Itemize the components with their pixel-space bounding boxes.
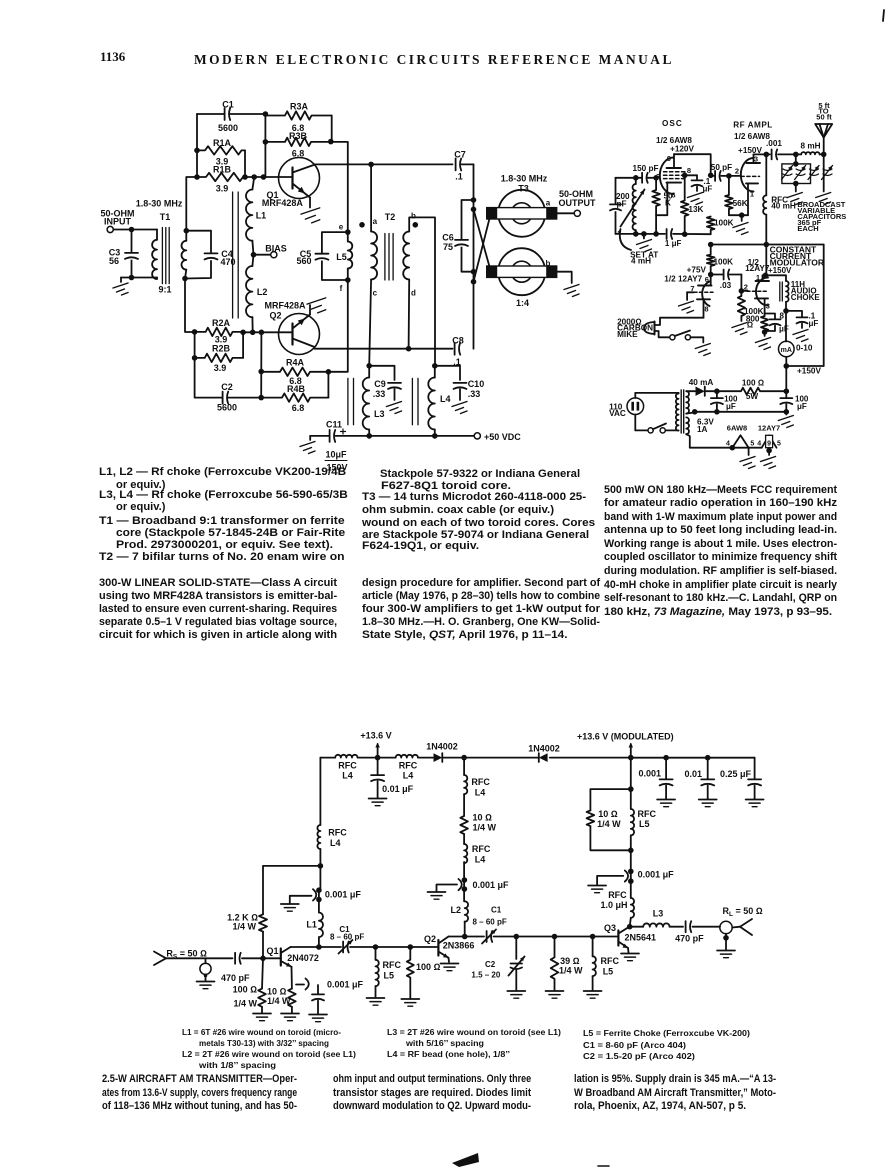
svg-text:L2: L2 [450, 905, 461, 915]
wire R2B right lead [242, 332, 244, 358]
scan mark top right [883, 10, 884, 21]
node phase dots T2 [359, 222, 418, 228]
node fb tap [318, 863, 324, 869]
heater 6AW8 [726, 423, 754, 447]
wire R3A right lead [331, 116, 333, 142]
wire sec rail down [185, 279, 195, 333]
inductor 8mH [796, 142, 824, 155]
inductor L1 [246, 177, 266, 255]
svg-text:c: c [373, 289, 378, 298]
svg-text:150V: 150V [326, 463, 347, 473]
svg-text:μF: μF [779, 324, 789, 333]
label 1/2 6AW8 osc [656, 136, 692, 145]
node R2A terminals [192, 329, 264, 335]
label 6.3V 1A [697, 418, 714, 434]
node b+ psu [784, 388, 790, 394]
wire psu bottom row [695, 411, 787, 413]
svg-text:C9: C9 [374, 379, 386, 389]
capacitor C6 [442, 200, 473, 272]
switch power [648, 424, 679, 434]
label c [373, 289, 378, 298]
wire mod grid lead [741, 290, 748, 292]
wire varcap gnd [795, 184, 797, 192]
diode rectifier [696, 387, 705, 396]
resistor 10 ohm rail [460, 794, 496, 834]
wire Q2 emitter [448, 958, 451, 962]
node choke bottom [783, 308, 789, 314]
ground Q2 emitter [307, 298, 326, 313]
wire bus c [444, 757, 539, 759]
wire supply arrow 1 [375, 743, 379, 758]
svg-text:8: 8 [687, 166, 691, 175]
svg-text:1.0 μH: 1.0 μH [601, 900, 628, 910]
svg-text:T2: T2 [385, 212, 396, 222]
svg-text:pF: pF [616, 200, 626, 209]
node e junction [345, 229, 351, 235]
svg-text:1/2 12AY7: 1/2 12AY7 [664, 275, 702, 284]
ground grid resistor [732, 316, 747, 335]
node mod grid [739, 288, 745, 294]
svg-text:a: a [546, 199, 551, 208]
wire top bus left [320, 757, 335, 759]
svg-text:+120V: +120V [670, 145, 694, 154]
transistor Q1 [267, 946, 319, 967]
node screen [682, 173, 688, 179]
ground 10 ohm [281, 1007, 299, 1021]
node rfc l5 tap [373, 944, 413, 950]
svg-text:560: 560 [296, 256, 311, 266]
label +13.6V [360, 731, 391, 741]
svg-text:L5: L5 [639, 819, 650, 829]
resistor R3B [265, 131, 330, 159]
transformer T2 core [385, 234, 393, 281]
transistor Q3 [604, 923, 656, 948]
resistor R2A [195, 318, 244, 345]
svg-text:10μF: 10μF [325, 450, 347, 460]
wire ant rail [823, 154, 825, 191]
svg-text:+13.6 V (MODULATED): +13.6 V (MODULATED) [577, 732, 674, 742]
ground heater 2 [761, 457, 776, 469]
inductor L3 [363, 366, 385, 436]
svg-text:1/4 W: 1/4 W [233, 999, 257, 1009]
svg-text:5W: 5W [746, 392, 759, 401]
svg-text:100 Ω: 100 Ω [742, 379, 764, 388]
svg-text:3: 3 [766, 302, 770, 311]
inductor L2 [450, 901, 468, 936]
node ant [821, 152, 827, 158]
inductor RFC L5 b [593, 937, 620, 991]
transformer T1 core [162, 228, 169, 284]
wire bus a [358, 757, 396, 759]
ground RFC L5 b [584, 991, 602, 998]
wire 50VDC bus [310, 435, 474, 437]
capacitor 0.25uF bypass [720, 769, 762, 799]
wire supply arrow 2 [629, 743, 633, 758]
transistor Q2 [265, 301, 320, 355]
wire C7 to rail [462, 163, 474, 165]
wire 10ohm branch [590, 789, 630, 810]
wire T2 a line [370, 164, 372, 231]
inductor RFC L4 c [317, 825, 347, 849]
svg-text:RFC: RFC [338, 761, 357, 771]
svg-text:C2: C2 [485, 960, 496, 969]
node supply 1 [375, 755, 381, 761]
svg-text:0.001 μF: 0.001 μF [327, 980, 364, 990]
svg-text:C1: C1 [222, 100, 234, 110]
wire rfc rail low [318, 890, 320, 912]
svg-text:L4: L4 [403, 770, 414, 780]
svg-text:75: 75 [443, 242, 453, 252]
wire T2 d line [408, 280, 411, 349]
svg-text:L5: L5 [384, 970, 395, 980]
label SET AT 4mH [630, 250, 658, 265]
tube V2 rf amplifier [741, 154, 760, 215]
label 1/2 12AY7 mod [745, 258, 770, 273]
wire L3 out [670, 926, 683, 928]
svg-text:150 pF: 150 pF [633, 164, 659, 173]
resistor 10 ohm [267, 987, 296, 1007]
transformer T1 primary [152, 230, 157, 280]
wire left column [319, 758, 321, 825]
node mod plate [763, 273, 769, 279]
node par top [628, 786, 634, 792]
wire varcap feed [766, 154, 796, 164]
svg-text:L5: L5 [603, 966, 614, 976]
svg-text:C7: C7 [454, 150, 466, 160]
capacitor var 1 [782, 166, 793, 180]
svg-text:1/2 6AW8: 1/2 6AW8 [656, 136, 692, 145]
svg-text:MRF428A: MRF428A [265, 301, 307, 311]
svg-text:100 Ω: 100 Ω [233, 985, 258, 995]
wire col rail [463, 758, 465, 775]
wire heater gnd 2 [766, 448, 772, 455]
svg-text:5: 5 [750, 440, 754, 447]
ground 100 ohm [253, 1007, 271, 1021]
capacitor C2 variable [471, 937, 524, 991]
wire feedback [263, 866, 320, 914]
resistor R1B [197, 165, 243, 194]
wire T1 primary bottom [132, 277, 158, 279]
svg-text:RFC: RFC [399, 761, 418, 771]
node 150v [764, 152, 799, 158]
node R3 junction [328, 139, 334, 145]
wire BIAS [254, 254, 271, 256]
tube V3 keyed stage [690, 275, 713, 318]
capacitor 470pF b [675, 920, 704, 943]
ground grid2 [679, 301, 694, 313]
node heater bus [730, 445, 736, 451]
tube V4 modulator [744, 273, 770, 316]
svg-text:L3: L3 [653, 909, 664, 919]
ground 100 ohm b [401, 999, 419, 1006]
svg-text:50 pF: 50 pF [711, 163, 732, 172]
label a [373, 217, 378, 226]
wire B+ row [711, 244, 824, 246]
wire 10ohm branch low [590, 826, 630, 850]
capacitor 8uF [765, 312, 789, 334]
resistor R4B [261, 384, 328, 413]
inductor RFC L5 c [631, 789, 657, 850]
svg-text:5: 5 [777, 440, 781, 447]
node R4A left [258, 369, 264, 375]
svg-text:1/4 W: 1/4 W [232, 921, 256, 931]
ground osc tank [637, 234, 652, 252]
antenna [815, 101, 832, 154]
wire mid row [350, 946, 438, 948]
wire feedback rail [331, 142, 348, 232]
capacitor var 4 [822, 166, 833, 180]
svg-text:C8: C8 [452, 336, 464, 346]
svg-text:10 Ω: 10 Ω [473, 813, 493, 823]
inductor L3 [643, 909, 669, 927]
svg-text:4: 4 [757, 440, 761, 447]
node mod rail top [628, 755, 634, 761]
svg-text:L1: L1 [256, 211, 267, 221]
svg-text:1N4002: 1N4002 [426, 742, 458, 752]
svg-text:C6: C6 [442, 233, 454, 243]
wire T3 lower gnd [557, 272, 572, 283]
node psu bottom [692, 409, 789, 415]
capacitor 0.01uF [370, 758, 414, 798]
resistor 100 ohm b [407, 947, 441, 998]
svg-text:0.001 μF: 0.001 μF [473, 880, 510, 890]
ground screen cap [688, 193, 703, 205]
svg-text:5600: 5600 [217, 403, 237, 413]
capacitor C5 [296, 232, 347, 280]
svg-text:C2: C2 [221, 382, 233, 392]
svg-text:L4: L4 [475, 788, 486, 798]
svg-text:b: b [411, 212, 416, 221]
svg-text:L5: L5 [336, 252, 347, 262]
svg-text:8 – 60 pF: 8 – 60 pF [330, 933, 364, 942]
capacitor .1uF mod [786, 311, 818, 328]
svg-text:VAC: VAC [609, 409, 626, 418]
label 40 mA [689, 378, 714, 387]
svg-text:2N5641: 2N5641 [625, 932, 657, 942]
capacitor C2 [217, 382, 261, 413]
svg-text:1/4 W: 1/4 W [267, 996, 291, 1006]
label +120V [670, 145, 694, 154]
svg-text:0.001 μF: 0.001 μF [325, 890, 362, 900]
label +150V rf [738, 146, 762, 155]
wire +120V row [674, 154, 711, 175]
node rect out [714, 388, 720, 394]
wire left col lower [319, 849, 321, 866]
resistor R4A [261, 358, 328, 386]
node par bottom [628, 848, 634, 854]
wire grid2 lead [687, 292, 694, 300]
node grid row [633, 175, 659, 181]
label T2 [385, 212, 396, 222]
node col rail top [461, 755, 467, 761]
switch key [670, 331, 691, 340]
wire .03 row [711, 275, 742, 291]
node cathode mod [762, 329, 768, 335]
label +13.6V MOD [577, 732, 674, 742]
svg-text:0.001 μF: 0.001 μF [638, 870, 675, 880]
source Rs [154, 949, 233, 981]
svg-text:R4A: R4A [286, 358, 305, 368]
label CONSTANT CURRENT MODULATOR [770, 245, 824, 268]
ground C11 [300, 442, 315, 454]
svg-text:50 ft: 50 ft [816, 113, 832, 122]
svg-text:1:4: 1:4 [516, 298, 529, 308]
heater 12AY7 [757, 423, 781, 447]
svg-text:Ω: Ω [747, 321, 753, 330]
wire Q2 base [243, 331, 292, 333]
tube V1 oscillator [656, 154, 691, 200]
ground input [113, 283, 128, 295]
capacitor 200pF [609, 178, 630, 234]
svg-text:BIAS: BIAS [265, 244, 287, 254]
capacitor 100uF 1 [710, 391, 738, 412]
svg-text:1/4 W: 1/4 W [559, 966, 583, 976]
ground RFC L5 a [367, 998, 385, 1005]
svg-text:RFC: RFC [383, 960, 402, 970]
node +75V [687, 266, 714, 278]
svg-text:470 pF: 470 pF [221, 973, 250, 983]
resistor R1A [197, 138, 245, 167]
svg-text:RFC: RFC [471, 777, 490, 787]
svg-text:T3: T3 [518, 184, 529, 194]
capacitor 0.001 a [290, 887, 362, 903]
svg-text:2: 2 [735, 166, 739, 175]
label 50-OHM INPUT [100, 209, 134, 227]
wire f-rail to R4 [328, 280, 347, 372]
wire grid row [616, 177, 659, 179]
svg-text:C10: C10 [468, 379, 485, 389]
node T2a tap [368, 162, 374, 168]
svg-text:L4: L4 [475, 854, 486, 864]
label 1.8-30MHz T3 [501, 174, 548, 184]
transformer T3 lower toroid [487, 248, 557, 295]
svg-text:CHOKE: CHOKE [791, 293, 821, 302]
capacitor C3 [109, 230, 139, 278]
scan mark dash [598, 1165, 609, 1167]
wire rect row [687, 390, 717, 392]
wire rf grid lead [729, 166, 741, 176]
wire Q1 base [243, 176, 293, 178]
svg-text:a: a [373, 217, 378, 226]
wire left rail [196, 114, 198, 177]
node R1A-R1B junctions [194, 148, 266, 180]
node out row [514, 934, 596, 940]
svg-text:R2A: R2A [212, 318, 231, 328]
wire plug bottom [635, 415, 648, 431]
svg-text:+13.6 V: +13.6 V [360, 731, 391, 741]
capacitor C10 [435, 366, 484, 400]
label 1:4 [516, 298, 529, 308]
label 1/2 6AW8 rf [734, 132, 770, 141]
terminal input [107, 226, 113, 232]
svg-text:Q2: Q2 [270, 311, 282, 321]
wire Q3 emitter [627, 948, 630, 953]
label BROADCAST [797, 200, 846, 233]
capacitor var 2 [795, 166, 806, 180]
scan mark bottom [452, 1153, 479, 1167]
wire heater bus [690, 447, 762, 449]
inductor L2 [246, 255, 267, 333]
svg-text:6AW8: 6AW8 [727, 423, 747, 432]
ground Q2 [441, 964, 459, 971]
wire R1A right lead [244, 150, 246, 177]
svg-text:56K: 56K [733, 199, 748, 208]
node L4 top [432, 363, 438, 369]
transformer T3 upper toroid [487, 190, 557, 237]
wire Q1 emitter [309, 198, 311, 208]
resistor 100 ohm base [233, 958, 266, 1008]
wire bus d [550, 757, 631, 759]
svg-text:.1: .1 [455, 172, 463, 182]
node 50pF tap [708, 173, 714, 179]
capacitor C4 [185, 231, 236, 279]
wire 1.2K lead [262, 932, 264, 959]
svg-text:OSC: OSC [662, 119, 683, 128]
label 1.8-30MHz [136, 198, 183, 208]
wire mod rail low [630, 850, 632, 898]
svg-text:RFC: RFC [638, 809, 657, 819]
label +150V out [797, 367, 821, 376]
ground load [717, 951, 735, 958]
inductor RFC 1uH [601, 890, 635, 927]
node Q2 collector [462, 934, 468, 940]
wire Q1 collector row [291, 946, 342, 948]
ground 0.001 a [281, 904, 299, 911]
inductor RFC 40mH [763, 158, 796, 245]
wire cathode osc [656, 192, 667, 215]
ground C10 [452, 402, 467, 414]
choke core L4 [412, 378, 418, 424]
svg-text:9:1: 9:1 [158, 285, 171, 295]
wire psu primary top [635, 393, 678, 398]
svg-text:.33: .33 [468, 389, 481, 399]
svg-text:L4: L4 [342, 770, 353, 780]
svg-text:3: 3 [754, 155, 758, 164]
wire T3 rail [473, 164, 475, 348]
microphone [617, 318, 654, 340]
svg-text:μF: μF [703, 185, 713, 194]
svg-text:0.01: 0.01 [684, 769, 702, 779]
diode 1N4002 a [426, 742, 458, 763]
resistor 800 ohm [746, 315, 768, 332]
wire mod rail [765, 245, 767, 276]
inductor L5 [336, 232, 352, 280]
svg-text:f: f [340, 284, 343, 293]
svg-text:12AY7: 12AY7 [758, 423, 780, 432]
terminal +50VDC [474, 432, 521, 442]
label +150V mod [768, 266, 792, 275]
svg-text:d: d [411, 289, 416, 298]
wire rfc rail mid [319, 866, 321, 890]
resistor 100 ohm 5W [717, 379, 786, 401]
inductor L1 [306, 913, 323, 948]
svg-text:e: e [339, 223, 344, 232]
svg-text:8: 8 [780, 312, 785, 321]
ground 0.001 b [428, 892, 446, 899]
svg-text:3.9: 3.9 [214, 363, 227, 373]
svg-text:1.5 – 20: 1.5 – 20 [471, 970, 500, 979]
svg-text:+150V: +150V [768, 266, 792, 275]
transformer psu secondary [686, 391, 695, 413]
transformer psu heater winding [686, 417, 690, 447]
svg-text:1A: 1A [697, 425, 708, 434]
wire bus b [418, 757, 433, 759]
svg-text:56: 56 [109, 256, 119, 266]
inductor RFC L4 a [335, 755, 357, 781]
wire right rail [823, 245, 825, 367]
resistor 39 ohm [551, 937, 583, 991]
wire psu rail [785, 366, 787, 391]
